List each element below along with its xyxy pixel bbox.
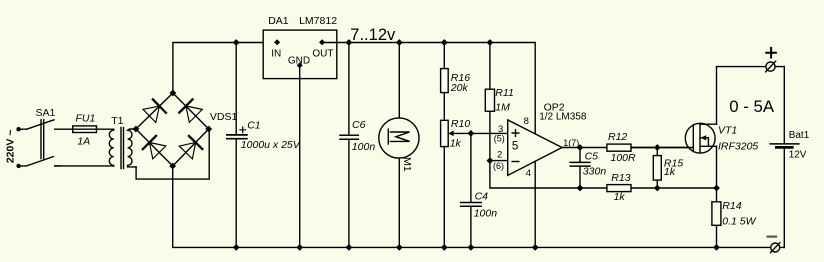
node: rail at R11 — [487, 39, 494, 46]
pin IN of DA1 — [274, 39, 280, 45]
svg-text:IRF3205: IRF3205 — [718, 140, 758, 152]
wire: feedback down and right — [490, 161, 717, 188]
wire: pin2 stub — [490, 160, 508, 162]
wire: 0V bottom rail — [173, 246, 785, 248]
svg-text:R13: R13 — [611, 172, 630, 184]
svg-text:SA1: SA1 — [36, 107, 56, 119]
node: output at C5 — [577, 144, 584, 151]
svg-text:VT1: VT1 — [718, 124, 737, 136]
potentiometer R10 — [441, 120, 508, 247]
capacitor C5 — [570, 148, 590, 189]
svg-text:C6: C6 — [352, 119, 366, 131]
motor M1 — [379, 43, 419, 248]
diode VDS1.2 (right-top) — [179, 99, 202, 122]
svg-text:M1: M1 — [401, 157, 413, 172]
svg-text:R11: R11 — [495, 87, 513, 99]
svg-text:5: 5 — [512, 141, 518, 153]
transformer T1 core — [121, 127, 124, 168]
svg-text:20k: 20k — [450, 82, 469, 94]
svg-text:1A: 1A — [77, 136, 90, 148]
node: rail at C1 — [233, 39, 240, 46]
capacitor C6 — [340, 43, 358, 248]
svg-text:1k: 1k — [450, 137, 462, 149]
node: wiper junction — [468, 130, 475, 137]
node: 0V at DA1 GND — [296, 244, 303, 251]
svg-text:R14: R14 — [722, 200, 741, 212]
node: 0V at M1 — [396, 244, 403, 251]
svg-text:DA1: DA1 — [268, 15, 289, 27]
node: mains input terminal top — [16, 127, 20, 131]
terminal + (output clamp) — [766, 61, 776, 72]
svg-text:0.1 5W: 0.1 5W — [722, 215, 756, 227]
wire: fuse to transformer primary — [73, 128, 114, 130]
node: feedback at R15 bottom — [654, 185, 661, 192]
node: rail at C6 — [346, 39, 353, 46]
node: gate node at R15 top — [654, 144, 661, 151]
resistor R13 — [607, 185, 631, 192]
svg-text:1(7): 1(7) — [563, 138, 579, 148]
svg-text:4: 4 — [526, 168, 531, 179]
battery Bat1 — [770, 67, 799, 248]
node: bridge bottom — [169, 163, 176, 170]
wire: op-amp output to gate of VT1 — [562, 147, 693, 149]
node: inverting input junction — [487, 157, 494, 164]
svg-text:FU1: FU1 — [76, 113, 96, 125]
op-amp U1 (OP2 1/2 LM358) — [508, 120, 562, 175]
diode VDS1.1 (left-top) — [143, 99, 166, 122]
resistor R14 — [712, 202, 721, 226]
svg-text:100n: 100n — [352, 141, 376, 153]
svg-text:(6): (6) — [493, 161, 504, 171]
diode VDS1.4 (bottom-right) — [179, 136, 202, 159]
svg-text:T1: T1 — [111, 115, 123, 127]
wire: secondary bottom to bridge right node — [136, 129, 209, 179]
svg-text:C5: C5 — [585, 150, 599, 162]
resistor R16 — [441, 43, 449, 121]
wire: bridge bottom to 0V rail — [172, 166, 174, 247]
svg-text:1M: 1M — [495, 101, 510, 113]
svg-text:C1: C1 — [247, 119, 260, 131]
node: rail at M1 — [396, 39, 403, 46]
resistor R12 — [607, 144, 631, 151]
svg-text:1k: 1k — [614, 191, 626, 203]
svg-text:330n: 330n — [583, 165, 607, 177]
node: 0V at C1 — [233, 244, 240, 251]
svg-text:100R: 100R — [611, 152, 637, 164]
op-amp - sign — [512, 161, 519, 163]
node: 0V at R14 — [713, 244, 720, 251]
regulator DA1 box — [263, 30, 337, 79]
node: feedback at C5 — [577, 185, 584, 192]
resistor R11 — [485, 43, 494, 161]
op-amp + sign — [512, 130, 519, 137]
svg-text:12V: 12V — [789, 150, 807, 161]
node: 0V at C4 — [468, 244, 475, 251]
svg-text:0 - 5A: 0 - 5A — [729, 97, 775, 116]
transistor VT1 (IRF3205 MOSFET) — [631, 123, 717, 153]
terminal - (output clamp) — [771, 243, 780, 253]
node: rail at R16 — [441, 39, 448, 46]
wire: switch bottom to transformer — [55, 165, 114, 167]
node: bridge top — [170, 90, 177, 97]
pin OUT of DA1 — [319, 39, 325, 45]
svg-text:1000u x 25V: 1000u x 25V — [241, 139, 301, 151]
svg-text:OUT: OUT — [312, 48, 333, 59]
capacitor C4 — [461, 133, 482, 247]
wire: source down to R14 — [716, 146, 718, 247]
svg-text:8: 8 — [524, 116, 529, 127]
svg-text:C4: C4 — [475, 190, 489, 202]
diode VDS1.3 (bottom-left) — [143, 136, 166, 159]
pin GND of DA1 — [297, 62, 303, 68]
wire: bridge top to +rail, rail to DA1 IN — [173, 43, 277, 94]
svg-text:1k: 1k — [664, 166, 676, 178]
node: 0V at pin4 — [532, 244, 539, 251]
svg-text:2: 2 — [497, 150, 502, 161]
svg-text:1/2 LM358: 1/2 LM358 — [539, 111, 587, 122]
transformer T1 secondary winding — [128, 129, 137, 167]
svg-text:R12: R12 — [608, 131, 627, 143]
wire: drain up to ammeter line — [716, 67, 718, 125]
node: mains input terminal bottom — [16, 164, 20, 168]
wire: ammeter top line — [717, 66, 785, 68]
transformer T1 primary winding — [109, 129, 113, 166]
svg-text:VDS1: VDS1 — [210, 111, 238, 123]
node: feedback at source — [713, 185, 720, 192]
bridge rectifier VDS1 diamond — [136, 93, 209, 166]
svg-text:LM7812: LM7812 — [299, 15, 337, 27]
wire: pin4 drop to 0V — [534, 161, 536, 247]
capacitor C1 (electrolytic) — [227, 43, 247, 248]
svg-text:(5): (5) — [494, 134, 505, 144]
svg-text:220V ~: 220V ~ — [5, 130, 17, 164]
node: 0V at C6 — [346, 244, 353, 251]
node: bridge left — [133, 126, 140, 133]
svg-text:Bat1: Bat1 — [789, 130, 810, 141]
wire: +12V rail from DA1 OUT to op-amp pin8 drop — [322, 43, 535, 134]
plus sign — [766, 48, 776, 58]
svg-text:R10: R10 — [451, 118, 470, 130]
svg-text:100n: 100n — [474, 208, 498, 220]
wire: DA1 GND down to 0V rail — [299, 65, 301, 247]
minus sign — [768, 236, 776, 238]
svg-text:IN: IN — [271, 48, 281, 59]
switch SA1 — [21, 120, 73, 166]
resistor R15 — [653, 148, 661, 189]
fuse FU1 — [73, 126, 97, 133]
svg-text:7..12v: 7..12v — [350, 26, 396, 44]
node: bridge right — [205, 126, 212, 133]
node: 0V at R10 — [441, 244, 448, 251]
